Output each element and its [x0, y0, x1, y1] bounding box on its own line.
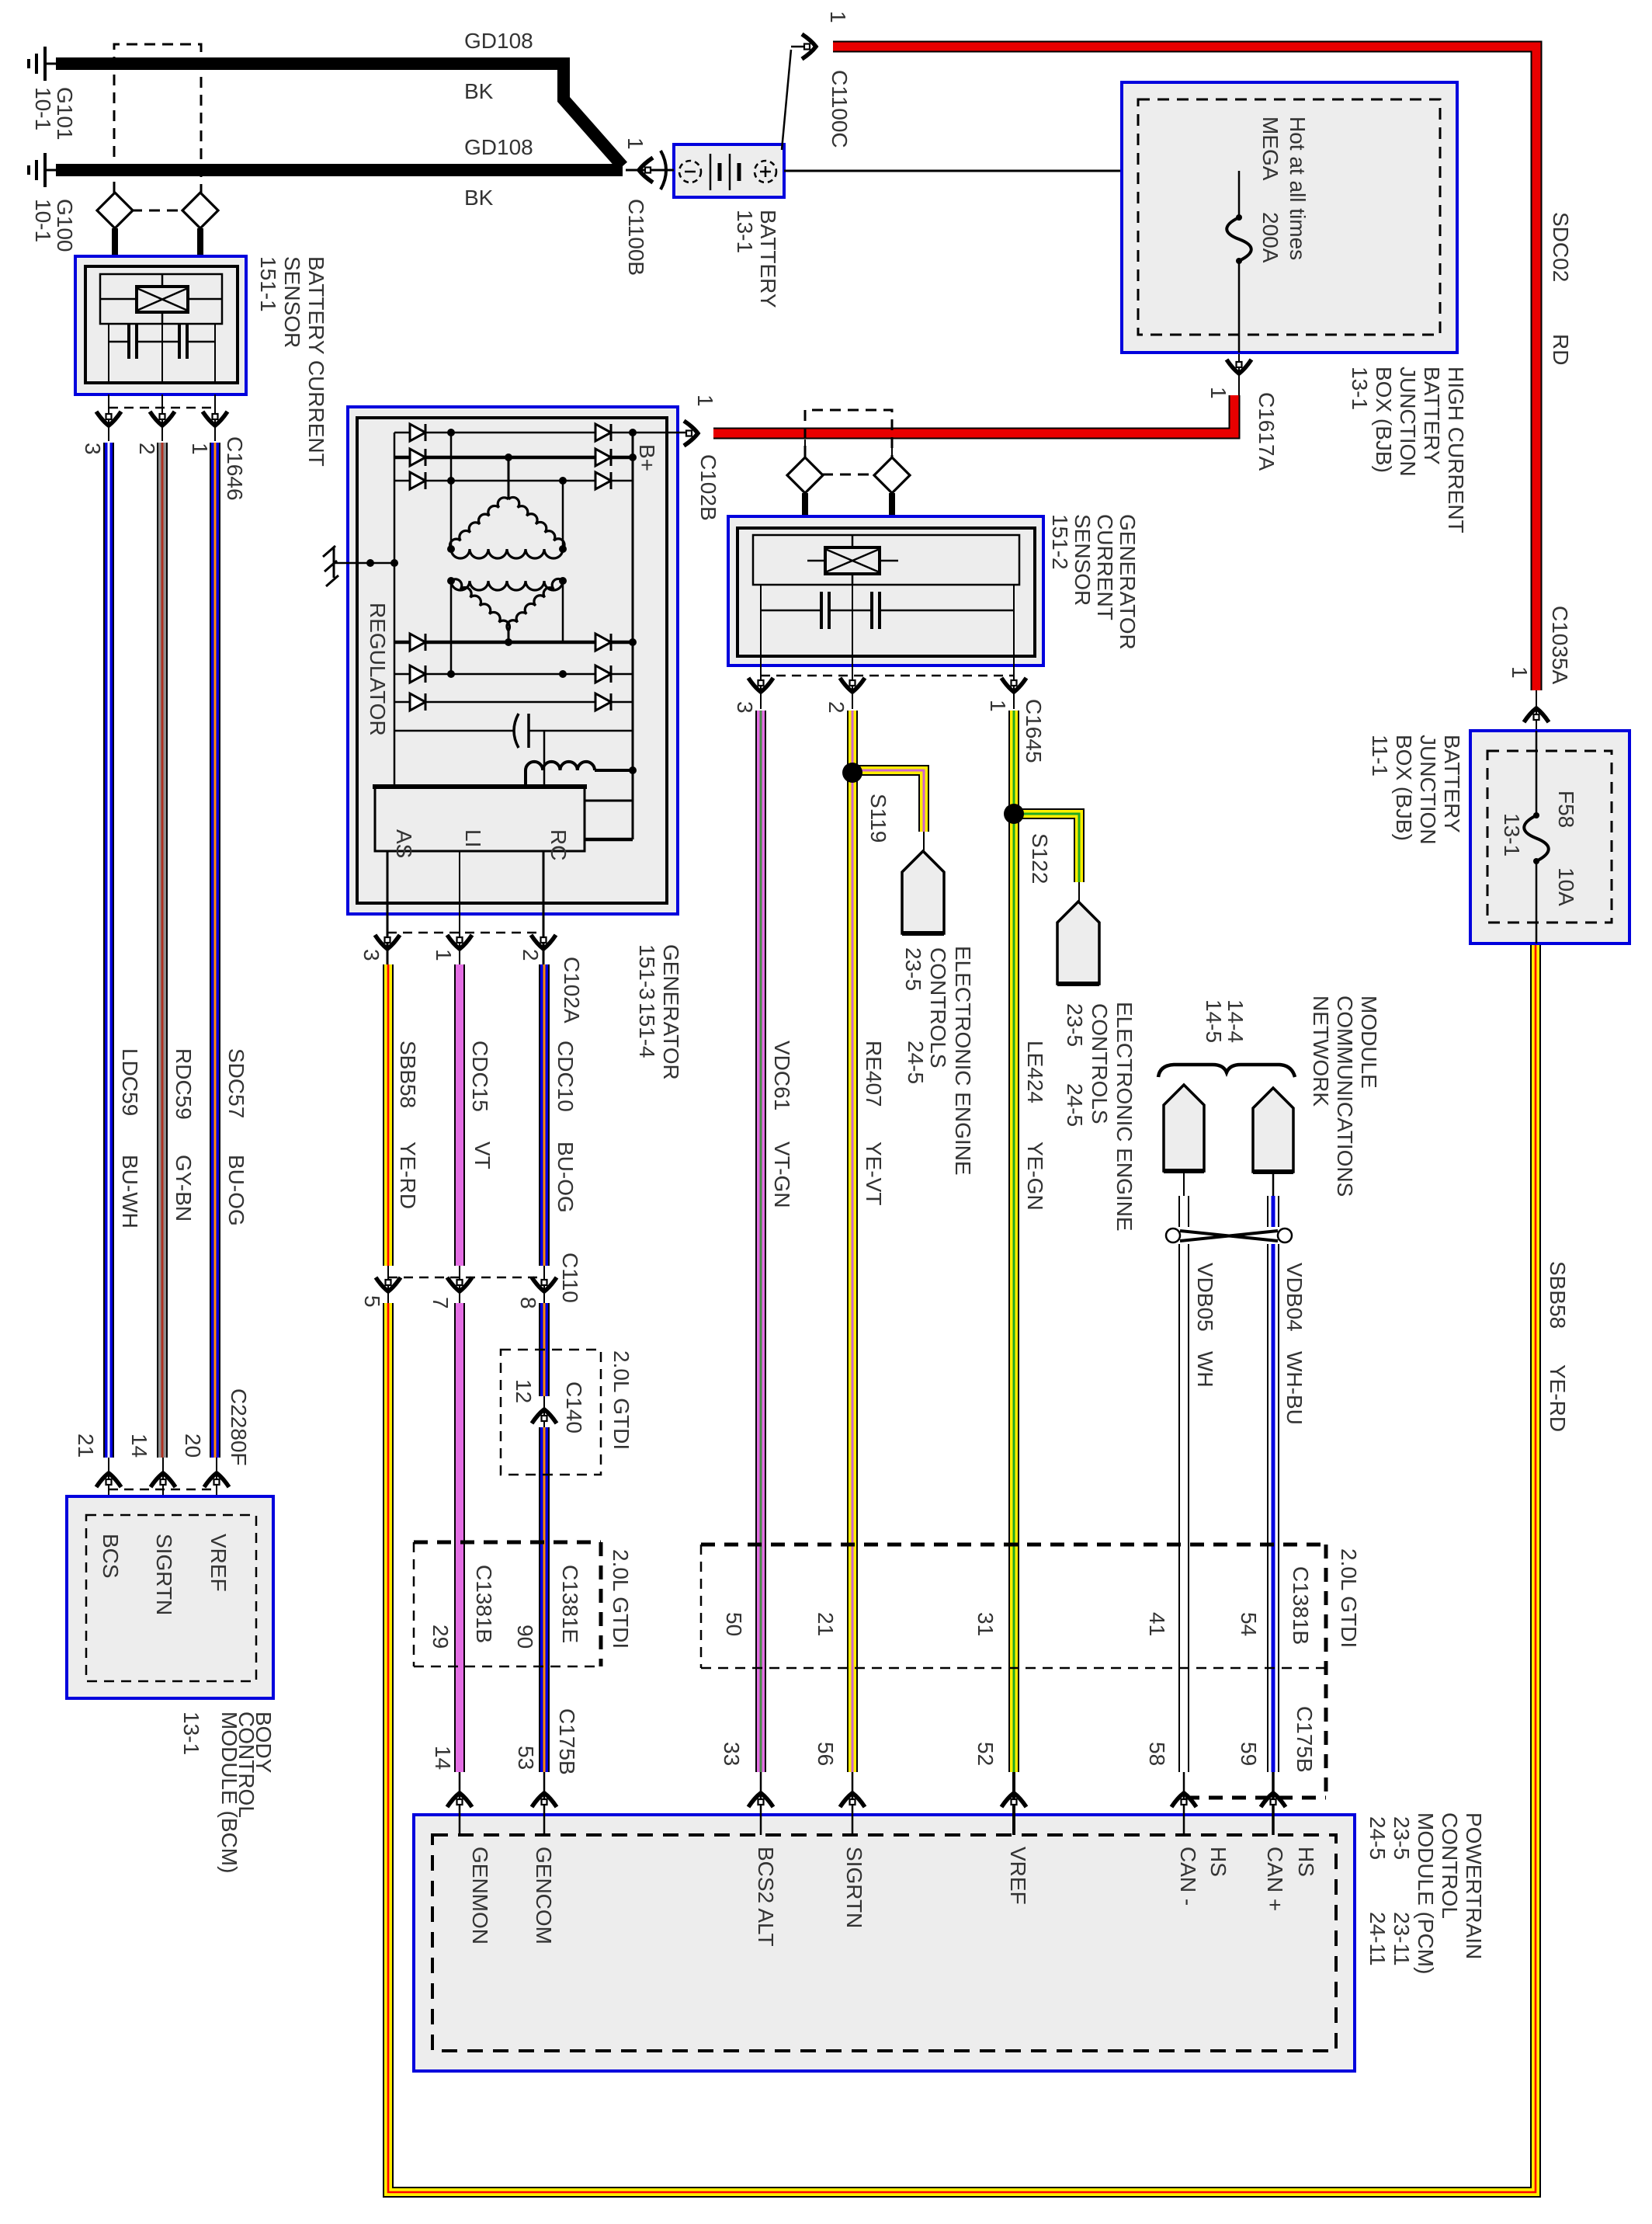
svg-text:41: 41 [1145, 1612, 1169, 1636]
svg-text:BU-WH: BU-WH [118, 1155, 142, 1228]
wire RDC59 GY-BN [157, 443, 168, 1458]
svg-text:24-5: 24-5 [1366, 1816, 1390, 1860]
svg-text:Hot at all times: Hot at all times [1286, 116, 1310, 260]
svg-text:BOX (BJB): BOX (BJB) [1392, 735, 1416, 841]
rectifier diode [410, 693, 425, 711]
svg-text:BATTERY: BATTERY [1440, 735, 1464, 833]
svg-text:YE-RD: YE-RD [396, 1142, 420, 1209]
wire SBB58 YE-RD (generator AS to fuse F58, around page) [383, 964, 394, 1266]
dashed shield box (battery current sensor probes) [114, 44, 201, 210]
wire CDC15 VT [454, 964, 465, 1266]
svg-text:14: 14 [431, 1746, 455, 1770]
svg-text:CDC10: CDC10 [554, 1041, 578, 1112]
off-page: electronic engine controls (S119) [902, 851, 944, 933]
svg-text:7: 7 [429, 1297, 453, 1309]
battery current sensor 151-1 box [75, 256, 246, 394]
svg-text:33: 33 [720, 1742, 744, 1766]
svg-text:29: 29 [429, 1625, 453, 1649]
wire LDC59 BU-WH [103, 443, 114, 1458]
off-page: network right (HS CAN +) [1253, 1088, 1293, 1172]
connector C1035A [1536, 690, 1537, 731]
stator delta winding (upper) [450, 498, 508, 549]
fuse F58 10A [1524, 815, 1549, 861]
probe diamond left [97, 193, 133, 228]
svg-text:YE-RD: YE-RD [1546, 1364, 1570, 1432]
svg-text:SBB58: SBB58 [1546, 1261, 1570, 1329]
svg-text:C102B: C102B [696, 454, 720, 521]
svg-text:YE-GN: YE-GN [1023, 1142, 1047, 1211]
svg-text:G100: G100 [53, 199, 77, 252]
connector C140 (2.0L GTDI) [501, 1350, 601, 1475]
svg-text:BK: BK [464, 186, 494, 210]
svg-text:C102A: C102A [560, 957, 584, 1023]
svg-text:RC: RC [547, 829, 571, 860]
svg-text:58: 58 [1145, 1742, 1169, 1766]
svg-text:CONTROL: CONTROL [1438, 1812, 1462, 1919]
svg-text:8: 8 [516, 1297, 540, 1309]
stator delta winding (lower) [451, 581, 563, 590]
svg-text:C1381B: C1381B [1289, 1566, 1313, 1645]
svg-text:G101: G101 [53, 87, 77, 141]
generator pins AS LI RC [387, 851, 389, 968]
svg-text:151-1: 151-1 [256, 256, 280, 312]
wire SDC57 BU-OG [210, 443, 220, 1458]
svg-text:C1645: C1645 [1022, 699, 1046, 763]
wire GD108 BK (lower) [56, 164, 623, 176]
rectifier diode [595, 449, 611, 466]
svg-text:LDC59: LDC59 [118, 1048, 142, 1116]
svg-text:59: 59 [1237, 1742, 1261, 1766]
svg-text:YE-VT: YE-VT [862, 1142, 886, 1205]
svg-text:SENSOR: SENSOR [280, 256, 304, 348]
svg-text:14-5: 14-5 [1202, 999, 1226, 1043]
svg-text:1: 1 [432, 949, 456, 961]
rectifier diode [595, 472, 611, 489]
wire VDB04 WH-BU (twisted pair) [1272, 1172, 1275, 1196]
svg-text:VDB04: VDB04 [1282, 1263, 1307, 1332]
wire LE424 YE-GN [1008, 711, 1019, 1772]
2.0L GTDI connector box (C1381B/C1381E) [414, 1541, 601, 1545]
svg-text:CDC15: CDC15 [468, 1041, 492, 1112]
svg-text:SIGRTN: SIGRTN [152, 1534, 176, 1615]
svg-text:52: 52 [973, 1742, 998, 1766]
svg-text:54: 54 [1237, 1612, 1261, 1636]
svg-text:MODULE (BCM): MODULE (BCM) [217, 1711, 241, 1873]
svg-text:200A: 200A [1258, 212, 1282, 263]
rectifier diode [410, 424, 425, 441]
svg-text:C1617A: C1617A [1255, 392, 1279, 471]
body control module (BCM) box [67, 1496, 273, 1698]
svg-text:SBB58: SBB58 [396, 1041, 420, 1108]
svg-text:14-4: 14-4 [1223, 999, 1248, 1043]
svg-text:JUNCTION: JUNCTION [1396, 367, 1420, 477]
svg-text:C140: C140 [562, 1381, 586, 1433]
battery junction box 11-1 [1470, 731, 1629, 943]
svg-text:CAN -: CAN - [1176, 1847, 1200, 1906]
svg-text:BCS: BCS [99, 1534, 123, 1579]
svg-text:VREF: VREF [206, 1534, 231, 1592]
connector C1646 [108, 394, 109, 441]
svg-text:BATTERY: BATTERY [756, 210, 780, 308]
svg-text:11-1: 11-1 [1368, 735, 1392, 777]
svg-text:2: 2 [824, 701, 849, 714]
svg-text:GENCOM: GENCOM [532, 1847, 556, 1944]
high current battery junction box 13-1 [1122, 82, 1457, 353]
svg-text:3: 3 [81, 443, 105, 455]
splice S122 [1014, 814, 1079, 882]
svg-text:MODULE (PCM): MODULE (PCM) [1414, 1812, 1438, 1974]
connector C1617A [1238, 353, 1240, 395]
wire SDC02 RD (battery to BJB fuse) [833, 47, 1536, 690]
svg-text:SDC02: SDC02 [1549, 212, 1573, 282]
svg-text:ELECTRONIC ENGINE: ELECTRONIC ENGINE [1112, 1002, 1137, 1232]
probe diamond right [182, 193, 218, 228]
current sensor element [825, 547, 880, 574]
current sensor element [137, 287, 188, 312]
svg-text:SIGRTN: SIGRTN [842, 1847, 866, 1928]
svg-text:C1035A: C1035A [1548, 606, 1572, 685]
svg-text:F58: F58 [1554, 791, 1578, 828]
rectifier diode [595, 665, 611, 683]
probe diamond left [787, 457, 823, 493]
svg-text:2.0L GTDI: 2.0L GTDI [609, 1549, 633, 1649]
svg-text:1: 1 [826, 11, 850, 23]
svg-text:CAN +: CAN + [1263, 1847, 1287, 1911]
rectifier diode [595, 634, 611, 651]
svg-text:12: 12 [512, 1379, 536, 1403]
svg-text:2: 2 [135, 443, 159, 455]
svg-text:C175B: C175B [1293, 1706, 1317, 1773]
svg-text:HS: HS [1294, 1847, 1318, 1877]
svg-text:C1381B: C1381B [472, 1565, 496, 1643]
svg-text:23-11: 23-11 [1390, 1912, 1414, 1966]
shield probes on SDC02 [805, 410, 892, 474]
svg-text:JUNCTION: JUNCTION [1416, 735, 1440, 845]
svg-text:2.0L GTDI: 2.0L GTDI [609, 1350, 633, 1450]
svg-text:2: 2 [519, 949, 543, 961]
svg-text:13-1: 13-1 [179, 1711, 203, 1755]
svg-text:23-5: 23-5 [901, 947, 925, 991]
svg-text:C175B: C175B [555, 1708, 579, 1775]
connector C110 [387, 1266, 389, 1303]
svg-text:5: 5 [360, 1295, 384, 1308]
wire CDC10 BU-OG [539, 964, 550, 1266]
svg-text:90: 90 [513, 1625, 537, 1649]
svg-text:1: 1 [986, 700, 1010, 712]
svg-text:REGULATOR: REGULATOR [366, 603, 390, 736]
wire SDC02 RD (B+ to BJB) [713, 395, 1234, 433]
svg-text:AS: AS [392, 829, 416, 858]
svg-text:RDC59: RDC59 [172, 1048, 196, 1120]
svg-text:3: 3 [359, 949, 383, 961]
svg-text:VT-GN: VT-GN [770, 1142, 794, 1208]
svg-text:GENMON: GENMON [468, 1847, 492, 1944]
connector C1100C [782, 50, 791, 150]
splice S119 [852, 770, 924, 832]
svg-text:BK: BK [464, 79, 494, 103]
off-page: network left (HS CAN -) [1164, 1085, 1204, 1171]
svg-text:C2280F: C2280F [227, 1388, 251, 1466]
svg-text:LI: LI [461, 829, 485, 847]
sensor internal caps [108, 324, 109, 383]
svg-text:13-1: 13-1 [1500, 813, 1524, 857]
svg-text:56: 56 [814, 1742, 838, 1766]
svg-text:VDB05: VDB05 [1193, 1263, 1217, 1332]
svg-text:MODULE: MODULE [1357, 996, 1381, 1089]
svg-text:GENERATOR: GENERATOR [1116, 514, 1140, 650]
svg-text:SENSOR: SENSOR [1071, 514, 1095, 606]
svg-text:C1381E: C1381E [558, 1565, 582, 1643]
svg-text:B+: B+ [635, 444, 659, 471]
svg-text:RD: RD [1549, 334, 1573, 365]
svg-text:21: 21 [814, 1612, 838, 1636]
svg-text:GY-BN: GY-BN [172, 1155, 196, 1221]
svg-text:S119: S119 [866, 794, 890, 843]
wire GD108 BK (upper) [56, 64, 623, 166]
svg-text:WH: WH [1193, 1351, 1217, 1388]
connector C1645 [760, 656, 762, 709]
wire RE407 YE-VT [847, 711, 858, 1772]
rectifier diode [410, 634, 425, 651]
svg-text:COMMUNICATIONS: COMMUNICATIONS [1333, 996, 1357, 1197]
svg-text:23-5: 23-5 [1063, 1003, 1087, 1047]
svg-text:MEGA: MEGA [1258, 116, 1282, 181]
svg-text:10A: 10A [1554, 867, 1578, 906]
svg-text:POWERTRAIN: POWERTRAIN [1462, 1812, 1486, 1959]
svg-text:GD108: GD108 [464, 135, 533, 159]
connector C1100B [626, 169, 674, 172]
sensor internal caps [760, 585, 762, 656]
svg-text:53: 53 [514, 1746, 538, 1770]
svg-text:CURRENT: CURRENT [1093, 514, 1117, 620]
svg-text:LE424: LE424 [1023, 1041, 1047, 1103]
svg-text:NETWORK: NETWORK [1309, 996, 1333, 1107]
regulator [375, 787, 585, 851]
svg-text:ELECTRONIC ENGINE: ELECTRONIC ENGINE [951, 946, 975, 1176]
field winding (rotor) [526, 762, 595, 770]
svg-text:GD108: GD108 [464, 29, 533, 53]
svg-text:151-2: 151-2 [1048, 514, 1072, 570]
svg-text:1: 1 [623, 137, 647, 150]
svg-text:RE407: RE407 [862, 1041, 886, 1107]
svg-text:VT: VT [470, 1142, 495, 1169]
fuse MEGA 200A [1227, 217, 1251, 261]
svg-text:BATTERY: BATTERY [1420, 367, 1444, 465]
svg-text:VDC61: VDC61 [770, 1041, 794, 1110]
svg-text:24-11: 24-11 [1366, 1912, 1390, 1966]
ground G101 [45, 63, 56, 65]
svg-text:HS: HS [1206, 1847, 1230, 1877]
generator internal buses and rectifier rows [394, 432, 633, 434]
svg-text:C1100C: C1100C [828, 70, 852, 148]
svg-text:S122: S122 [1028, 833, 1052, 884]
svg-text:1: 1 [188, 443, 212, 455]
smoothing capacitor [394, 730, 513, 732]
svg-text:WH-BU: WH-BU [1282, 1351, 1307, 1425]
battery 13-1 [674, 144, 784, 197]
svg-text:CONTROLS: CONTROLS [926, 947, 950, 1069]
svg-text:BU-OG: BU-OG [554, 1142, 578, 1213]
svg-text:3: 3 [733, 701, 757, 714]
svg-text:24-5: 24-5 [1063, 1083, 1087, 1127]
svg-text:BOX (BJB): BOX (BJB) [1372, 367, 1396, 473]
svg-text:BATTERY CURRENT: BATTERY CURRENT [304, 256, 328, 467]
svg-text:14: 14 [127, 1433, 151, 1458]
ground G100 [45, 169, 56, 172]
svg-text:VREF: VREF [1006, 1847, 1030, 1905]
brace [1158, 1065, 1295, 1077]
svg-text:CONTROLS: CONTROLS [1088, 1003, 1112, 1124]
svg-text:C1100B: C1100B [624, 199, 648, 276]
svg-text:HIGH CURRENT: HIGH CURRENT [1444, 367, 1468, 533]
svg-text:C1646: C1646 [223, 436, 247, 501]
powertrain control module (PCM) box [414, 1815, 1355, 2071]
generator current sensor 151-2 box [728, 516, 1043, 665]
generator 151-3 151-4 box [348, 407, 678, 914]
probe diamond right [874, 457, 910, 493]
svg-text:23-5: 23-5 [1390, 1816, 1414, 1860]
twisted pair crossover [1166, 1228, 1180, 1242]
wire VDC61 VT-GN [755, 711, 766, 1772]
rectifier diode [410, 449, 425, 466]
generator case ground [334, 562, 394, 565]
B+ output line and connector C102B [633, 432, 688, 434]
svg-text:50: 50 [722, 1612, 746, 1636]
rectifier diode [410, 665, 425, 683]
svg-text:151-4: 151-4 [635, 1003, 659, 1058]
connector C102A [387, 932, 543, 934]
svg-text:24-5: 24-5 [904, 1041, 928, 1084]
svg-text:C110: C110 [558, 1253, 582, 1303]
rectifier diode [410, 472, 425, 489]
svg-text:2.0L GTDI: 2.0L GTDI [1337, 1548, 1361, 1648]
svg-text:1: 1 [693, 394, 717, 407]
svg-text:21: 21 [74, 1433, 98, 1458]
svg-text:13-1: 13-1 [733, 210, 757, 253]
svg-text:10-1: 10-1 [31, 87, 55, 130]
svg-text:10-1: 10-1 [31, 199, 55, 242]
svg-text:20: 20 [181, 1433, 205, 1458]
2.0L GTDI connector box (C1381B wide) [701, 1543, 1326, 1547]
svg-text:BCS2 ALT: BCS2 ALT [754, 1847, 778, 1947]
svg-text:13-1: 13-1 [1348, 367, 1372, 410]
wire VDB05 WH (twisted pair) [1183, 1171, 1185, 1196]
svg-text:31: 31 [973, 1612, 998, 1636]
svg-text:151-3: 151-3 [635, 944, 659, 1000]
rectifier diode [595, 424, 611, 441]
svg-text:GENERATOR: GENERATOR [659, 944, 683, 1080]
svg-text:SDC57: SDC57 [224, 1048, 248, 1118]
battery positive feed into high current BJB [784, 170, 1239, 172]
svg-text:1: 1 [1508, 666, 1532, 679]
rectifier diode [595, 693, 611, 711]
off-page: electronic engine controls (S122) [1057, 902, 1099, 984]
svg-text:BU-OG: BU-OG [224, 1155, 248, 1226]
svg-text:1: 1 [1206, 387, 1230, 399]
